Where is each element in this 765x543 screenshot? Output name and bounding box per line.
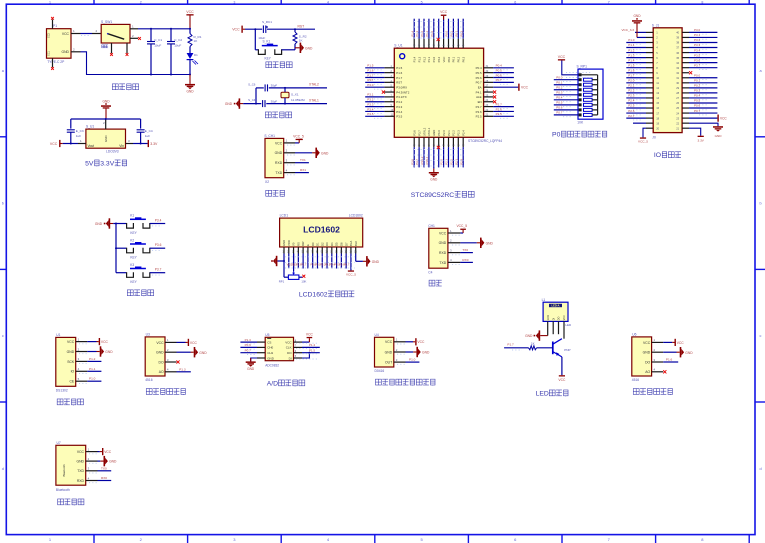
svg-text:DO: DO [159, 360, 164, 364]
svg-text:P0.5: P0.5 [476, 71, 482, 75]
svg-text:34: 34 [676, 61, 679, 65]
svg-text:K2: K2 [130, 238, 134, 242]
svg-text:Vout: Vout [88, 144, 95, 148]
svg-text:XTAL1: XTAL1 [425, 156, 429, 165]
svg-text:VCC: VCC [104, 450, 112, 454]
svg-text:P0.0: P0.0 [556, 76, 563, 80]
svg-text:P0.4: P0.4 [496, 64, 503, 68]
svg-text:P3.4: P3.4 [367, 107, 374, 111]
svg-text:P3.0/RX: P3.0/RX [396, 86, 407, 90]
svg-text:P1.0: P1.0 [89, 377, 96, 381]
svg-text:10uF: 10uF [154, 44, 161, 48]
svg-text:GND: GND [156, 351, 164, 355]
svg-text:D3: D3 [325, 242, 329, 246]
svg-text:GND: GND [225, 102, 233, 106]
svg-text:C_C1: C_C1 [154, 38, 162, 42]
svg-text:GND: GND [267, 356, 275, 360]
svg-text:P1.1: P1.1 [89, 367, 96, 371]
svg-text:P3.7: P3.7 [417, 130, 421, 136]
svg-text:P1.4: P1.4 [309, 343, 316, 347]
svg-text:7: 7 [608, 0, 610, 4]
svg-text:1uF: 1uF [145, 134, 150, 138]
svg-text:VCC: VCC [232, 28, 240, 32]
svg-text:VCC: VCC [186, 10, 194, 14]
svg-text:14: 14 [656, 96, 659, 100]
svg-text:P3.3: P3.3 [694, 43, 701, 47]
svg-text:P1.4: P1.4 [628, 58, 635, 62]
svg-text:P1: P1 [53, 24, 57, 28]
svg-text:P2.4: P2.4 [462, 130, 466, 136]
svg-text:11.0592M: 11.0592M [291, 98, 305, 102]
svg-text:40: 40 [676, 31, 679, 35]
svg-text:VCC: VCC [306, 333, 314, 337]
svg-text:P0.7: P0.7 [694, 109, 701, 113]
svg-text:E_C4: E_C4 [145, 129, 153, 133]
svg-text:10uF: 10uF [174, 44, 181, 48]
svg-text:D5: D5 [335, 242, 339, 246]
svg-text:P3.4: P3.4 [396, 110, 402, 114]
svg-text:21: 21 [676, 126, 679, 130]
svg-text:VCC: VCC [558, 378, 566, 382]
svg-text:P1.3: P1.3 [628, 53, 635, 57]
svg-text:P3.1/TX: P3.1/TX [396, 95, 407, 99]
svg-text:P1.3: P1.3 [245, 338, 252, 342]
svg-text:VCC: VCC [442, 57, 446, 63]
svg-text:LCD1602: LCD1602 [349, 214, 363, 218]
svg-text:VCC_5: VCC_5 [638, 140, 648, 144]
svg-text:PNP: PNP [564, 348, 570, 352]
svg-text:P0.6: P0.6 [245, 343, 252, 347]
svg-text:19: 19 [656, 121, 659, 125]
svg-text:32: 32 [676, 71, 679, 75]
svg-text:4516: 4516 [632, 378, 640, 382]
svg-text:P2.3: P2.3 [628, 94, 635, 98]
svg-text:TXD: TXD [77, 469, 84, 473]
svg-text:VCC_3.3: VCC_3.3 [621, 28, 634, 32]
svg-text:1K: 1K [531, 342, 535, 346]
svg-text:D6: D6 [339, 242, 343, 246]
svg-text:4516: 4516 [145, 378, 153, 382]
svg-text:31: 31 [676, 76, 679, 80]
svg-text:P0.5: P0.5 [556, 101, 563, 105]
svg-text:1uF: 1uF [76, 134, 81, 138]
svg-text:P1.4: P1.4 [413, 56, 417, 62]
svg-text:36: 36 [676, 51, 679, 55]
svg-text:Vin: Vin [119, 144, 124, 148]
svg-text:GND: GND [422, 351, 430, 355]
svg-text:GND: GND [321, 151, 329, 155]
svg-text:P0.0: P0.0 [445, 30, 449, 36]
svg-text:1: 1 [49, 0, 51, 4]
svg-text:P1.5: P1.5 [367, 64, 374, 68]
svg-text:TYPE-C 2P: TYPE-C 2P [47, 60, 65, 64]
svg-text:4: 4 [327, 0, 329, 4]
svg-text:13: 13 [656, 91, 659, 95]
svg-text:P1.6: P1.6 [367, 68, 374, 72]
svg-text:3.3V: 3.3V [698, 138, 705, 142]
svg-text:24: 24 [676, 111, 679, 115]
svg-text:ALE: ALE [476, 95, 482, 99]
svg-text:U4: U4 [375, 333, 379, 337]
svg-text:GND: GND [95, 222, 103, 226]
svg-text:P0.1: P0.1 [694, 79, 701, 83]
svg-text:VCC: VCC [563, 315, 566, 320]
svg-text:EN: EN [478, 100, 482, 104]
svg-text:D1: D1 [316, 242, 320, 246]
svg-text:S_C4: S_C4 [248, 98, 256, 102]
svg-text:P1.1: P1.1 [628, 43, 635, 47]
svg-text:VCC: VCC [720, 116, 727, 120]
svg-text:6: 6 [514, 0, 516, 4]
svg-text:KEY: KEY [130, 256, 137, 260]
svg-text:22: 22 [676, 121, 679, 125]
svg-text:P1.7: P1.7 [367, 73, 374, 77]
svg-text:TXD: TXD [275, 171, 282, 175]
svg-text:S_RP1: S_RP1 [577, 65, 588, 69]
svg-text:A/D: A/D [267, 380, 278, 387]
svg-text:29: 29 [676, 86, 679, 90]
svg-text:P1.6: P1.6 [396, 71, 402, 75]
svg-text:RP1: RP1 [279, 279, 285, 283]
svg-text:P2.2: P2.2 [452, 130, 456, 136]
svg-text:P2.2: P2.2 [450, 159, 454, 165]
svg-text:P1.1: P1.1 [425, 30, 429, 36]
svg-text:VCC: VCC [67, 340, 75, 344]
svg-text:TXD: TXD [439, 261, 446, 265]
svg-text:P0.2: P0.2 [694, 84, 701, 88]
svg-text:GND: GND [372, 260, 380, 264]
svg-text:CLK: CLK [286, 346, 292, 350]
svg-text:AO: AO [159, 370, 164, 374]
svg-text:CH1: CH1 [428, 224, 435, 228]
svg-text:XTAL2: XTAL2 [422, 127, 426, 136]
svg-text:V0: V0 [292, 242, 296, 246]
svg-text:VCC: VCC [439, 231, 447, 235]
svg-text:P3.6: P3.6 [413, 130, 417, 136]
svg-text:VCC_5: VCC_5 [456, 224, 467, 228]
svg-text:RXD: RXD [439, 251, 447, 255]
svg-text:STC89C52RC: STC89C52RC [411, 192, 455, 199]
svg-text:LDO3V3: LDO3V3 [106, 149, 119, 153]
svg-text:VDD: VDD [287, 240, 291, 246]
svg-text:P3.4: P3.4 [155, 218, 162, 222]
svg-text:GND: GND [305, 46, 313, 50]
svg-text:P0.6: P0.6 [476, 76, 482, 80]
svg-text:P0.6: P0.6 [694, 104, 701, 108]
svg-text:37: 37 [676, 46, 679, 50]
svg-text:VCC: VCC [62, 32, 70, 36]
svg-text:DO: DO [558, 316, 561, 320]
svg-text:VCC: VCC [385, 340, 393, 344]
svg-text:P0.3: P0.3 [462, 56, 466, 62]
svg-text:P2.0: P2.0 [442, 130, 446, 136]
svg-text:GND: GND [109, 460, 117, 464]
svg-text:P1.7: P1.7 [507, 343, 514, 347]
svg-text:P1.5: P1.5 [309, 348, 316, 352]
svg-text:GND: GND [199, 351, 207, 355]
svg-text:S_X1: S_X1 [291, 92, 299, 96]
svg-text:U1: U1 [56, 333, 60, 337]
svg-text:P1.7: P1.7 [628, 73, 635, 77]
svg-text:D2: D2 [320, 242, 324, 246]
svg-text:P1.2: P1.2 [89, 357, 96, 361]
svg-text:P3.7: P3.7 [415, 159, 419, 165]
svg-text:P0.5: P0.5 [694, 99, 701, 103]
svg-text:P2.1: P2.1 [445, 159, 449, 165]
svg-text:S_C6: S_C6 [248, 82, 256, 86]
svg-text:XTAL2: XTAL2 [309, 83, 319, 87]
svg-text:D1: D1 [194, 53, 198, 57]
svg-text:P4.0: P4.0 [437, 130, 441, 136]
svg-text:P3.6: P3.6 [694, 58, 701, 62]
svg-text:VCC: VCC [156, 341, 164, 345]
svg-text:L1: L1 [542, 298, 546, 302]
svg-text:VCC: VCC [643, 341, 651, 345]
svg-text:VCC: VCC [558, 55, 566, 59]
svg-text:P0.7: P0.7 [496, 78, 503, 82]
svg-text:GND: GND [525, 334, 533, 338]
svg-text:P4.2: P4.2 [437, 56, 441, 62]
svg-text:P3.5: P3.5 [396, 115, 402, 119]
svg-text:D7: D7 [344, 242, 348, 246]
svg-text:AO: AO [645, 370, 650, 374]
svg-text:5V: 5V [85, 160, 94, 167]
svg-text:U3: U3 [146, 333, 150, 337]
svg-text:P0.3: P0.3 [694, 89, 701, 93]
svg-text:15: 15 [656, 101, 659, 105]
svg-text:GND: GND [105, 350, 113, 354]
svg-text:30: 30 [676, 81, 679, 85]
svg-text:P3.6: P3.6 [410, 159, 414, 165]
svg-text:GND: GND [547, 315, 550, 321]
svg-text:P4.3/INT2: P4.3/INT2 [396, 90, 409, 94]
svg-text:RX0: RX0 [462, 258, 468, 262]
svg-text:TX0: TX0 [101, 466, 107, 470]
svg-text:S_U1: S_U1 [86, 125, 94, 129]
svg-text:P1.7: P1.7 [396, 76, 402, 80]
svg-text:3: 3 [233, 0, 235, 4]
svg-text:P3.2: P3.2 [367, 98, 374, 102]
svg-text:CH1: CH1 [267, 351, 273, 355]
svg-text:P0.0: P0.0 [447, 56, 451, 62]
svg-text:RXD: RXD [77, 479, 85, 483]
svg-text:P1.0: P1.0 [628, 38, 635, 42]
svg-text:b: b [2, 202, 4, 206]
svg-text:RST: RST [396, 81, 402, 85]
svg-text:J0: J0 [652, 135, 656, 139]
svg-text:Bluetooth: Bluetooth [56, 488, 70, 492]
svg-text:RST: RST [367, 78, 373, 82]
svg-text:10: 10 [656, 76, 659, 80]
svg-text:LCD1: LCD1 [280, 214, 289, 218]
svg-text:GND: GND [61, 50, 69, 54]
svg-text:GND: GND [643, 351, 651, 355]
svg-text:30pF: 30pF [271, 99, 278, 103]
svg-text:P0.5: P0.5 [496, 68, 503, 72]
svg-text:P0.2: P0.2 [556, 86, 563, 90]
svg-text:P0.7: P0.7 [556, 111, 563, 115]
svg-text:RXD: RXD [275, 161, 283, 165]
svg-text:GND: GND [76, 460, 84, 464]
svg-text:CC2: CC2 [48, 33, 51, 38]
svg-text:U7: U7 [57, 441, 61, 445]
svg-text:P2.0: P2.0 [628, 79, 635, 83]
svg-text:VCC: VCC [101, 340, 109, 344]
svg-text:P2.4: P2.4 [628, 99, 635, 103]
svg-text:U5: U5 [265, 333, 269, 337]
svg-text:P3.0: P3.0 [694, 28, 701, 32]
svg-text:P2.7: P2.7 [301, 263, 307, 267]
svg-text:d: d [2, 467, 4, 471]
svg-text:P0.1: P0.1 [450, 30, 454, 36]
svg-text:P0.2: P0.2 [454, 30, 458, 36]
svg-text:P1.2: P1.2 [628, 48, 635, 52]
svg-text:GND: GND [102, 99, 110, 103]
svg-text:2: 2 [140, 0, 142, 4]
svg-text:D0: D0 [311, 242, 315, 246]
svg-text:P0.3: P0.3 [459, 30, 463, 36]
svg-text:KEY: KEY [130, 231, 137, 235]
svg-text:GND: GND [385, 350, 393, 354]
svg-text:P1.2: P1.2 [420, 30, 424, 36]
svg-text:P2.7: P2.7 [628, 114, 635, 118]
svg-text:c: c [760, 334, 762, 338]
svg-text:CS: CS [267, 340, 271, 344]
svg-text:VCC_5: VCC_5 [346, 273, 356, 277]
svg-text:GND: GND [633, 14, 641, 18]
svg-text:P3.4: P3.4 [694, 48, 701, 52]
svg-text:BLK: BLK [354, 241, 358, 246]
svg-text:P3.1: P3.1 [367, 93, 374, 97]
svg-text:VCC_5: VCC_5 [293, 134, 304, 138]
svg-text:GND: GND [430, 178, 438, 182]
svg-text:STC89C52RC_LQFP44: STC89C52RC_LQFP44 [468, 139, 502, 143]
svg-text:P2.6: P2.6 [628, 109, 635, 113]
svg-text:18: 18 [656, 116, 659, 120]
svg-text:RS: RS [296, 242, 300, 246]
svg-text:DS1302: DS1302 [56, 389, 68, 393]
svg-text:P3.3: P3.3 [367, 102, 374, 106]
svg-text:DI: DI [289, 356, 292, 360]
svg-text:RST: RST [298, 24, 305, 28]
svg-text:P2.1: P2.1 [447, 130, 451, 136]
svg-text:8: 8 [701, 0, 703, 4]
svg-text:P2.5: P2.5 [496, 112, 503, 116]
svg-text:25: 25 [676, 106, 679, 110]
svg-text:D0416: D0416 [375, 369, 385, 373]
svg-text:LED: LED [536, 390, 549, 397]
svg-text:VCC: VCC [77, 450, 85, 454]
svg-text:P2.6: P2.6 [476, 110, 482, 114]
svg-text:VCC: VCC [275, 141, 283, 145]
svg-text:P1.0: P1.0 [432, 56, 436, 62]
svg-text:P2.4: P2.4 [459, 159, 463, 165]
svg-text:GND: GND [432, 130, 436, 136]
svg-text:P1.4: P1.4 [410, 30, 414, 36]
svg-text:P3.7: P3.7 [155, 268, 162, 272]
svg-text:P0.7: P0.7 [476, 81, 482, 85]
svg-text:b: b [759, 202, 761, 206]
svg-text:P3.2: P3.2 [396, 100, 402, 104]
svg-text:P2.5: P2.5 [476, 115, 482, 119]
svg-text:GND: GND [715, 134, 723, 138]
svg-text:35: 35 [676, 56, 679, 60]
svg-text:K1: K1 [130, 214, 134, 218]
svg-text:P3.6: P3.6 [155, 243, 162, 247]
svg-text:VCC: VCC [285, 340, 292, 344]
svg-text:5: 5 [421, 0, 423, 4]
svg-text:d: d [759, 467, 761, 471]
svg-text:GND: GND [186, 90, 194, 94]
svg-text:IO: IO [71, 370, 75, 374]
svg-text:C_C2: C_C2 [174, 38, 182, 42]
svg-text:XTAL1: XTAL1 [309, 98, 319, 102]
svg-text:RX1: RX1 [300, 168, 306, 172]
svg-text:23: 23 [676, 116, 679, 120]
svg-text:26: 26 [676, 101, 679, 105]
svg-text:C4: C4 [428, 271, 432, 275]
svg-text:TX1: TX1 [300, 158, 306, 162]
svg-text:P1.5: P1.5 [396, 66, 402, 70]
svg-text:3.3V: 3.3V [100, 160, 114, 167]
svg-text:P2.7: P2.7 [476, 105, 482, 109]
svg-text:BLA: BLA [349, 241, 353, 246]
svg-text:c: c [2, 334, 4, 338]
svg-text:LED: LED [565, 323, 572, 327]
svg-text:P0.6: P0.6 [556, 106, 563, 110]
svg-text:S_SW1: S_SW1 [101, 20, 112, 24]
svg-text:VCC: VCC [521, 86, 529, 90]
svg-text:EA: EA [478, 86, 482, 90]
svg-text:P1.3: P1.3 [179, 367, 186, 371]
svg-text:10K: 10K [301, 279, 306, 283]
svg-text:P0.7: P0.7 [245, 348, 252, 352]
svg-text:P4.1: P4.1 [476, 90, 482, 94]
svg-text:U6: U6 [632, 333, 636, 337]
svg-text:VCC: VCC [440, 10, 448, 14]
svg-text:P2.6: P2.6 [496, 107, 503, 111]
svg-text:LED-A: LED-A [552, 304, 560, 308]
svg-text:P1.6: P1.6 [666, 358, 673, 362]
svg-text:17: 17 [656, 111, 659, 115]
svg-text:P1.6: P1.6 [628, 68, 635, 72]
svg-text:D4: D4 [330, 242, 334, 246]
svg-text:P2.0: P2.0 [440, 159, 444, 165]
svg-text:ADC0832: ADC0832 [265, 363, 279, 367]
svg-text:S_U1: S_U1 [394, 44, 402, 48]
svg-text:VCC: VCC [190, 341, 198, 345]
svg-text:S_J1: S_J1 [652, 23, 660, 27]
svg-text:P2.3: P2.3 [454, 159, 458, 165]
svg-text:GND: GND [247, 367, 255, 371]
svg-text:GND: GND [67, 350, 75, 354]
svg-text:Bluetooth: Bluetooth [62, 464, 66, 477]
svg-text:XTAL1: XTAL1 [427, 127, 431, 136]
svg-text:P0.4: P0.4 [556, 96, 563, 100]
svg-text:KEY: KEY [265, 56, 272, 60]
svg-text:P2.2: P2.2 [628, 89, 635, 93]
svg-text:P1.0: P1.0 [409, 358, 416, 362]
svg-text:GND: GND [282, 240, 286, 246]
svg-text:P3.5: P3.5 [367, 112, 374, 116]
svg-text:S_CH1: S_CH1 [264, 134, 275, 138]
svg-text:GND: GND [104, 136, 108, 142]
svg-text:P3.7: P3.7 [694, 63, 701, 67]
svg-text:P1.3: P1.3 [417, 56, 421, 62]
svg-text:LCD1602: LCD1602 [299, 291, 328, 298]
svg-text:TX0: TX0 [462, 248, 468, 252]
svg-text:P0.2: P0.2 [457, 56, 461, 62]
